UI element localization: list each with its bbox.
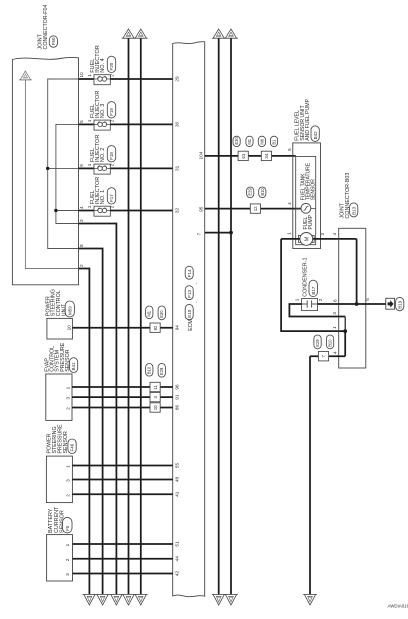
wire F50 pin 8 down	[79, 249, 103, 595]
svg-text:,: ,	[193, 283, 198, 284]
svg-text:63: 63	[241, 153, 246, 158]
wire injector NO.3 to ECM pin 30	[110, 123, 172, 125]
wire condenser pin1 to B13 pin 3	[289, 304, 345, 317]
oval B13	[350, 203, 358, 217]
page arrow bottom G6	[212, 594, 226, 596]
svg-text:10: 10	[153, 405, 158, 410]
svg-text:3: 3	[65, 573, 70, 576]
svg-text:3: 3	[66, 479, 71, 482]
oval F18	[107, 146, 115, 162]
svg-text:3: 3	[320, 233, 325, 236]
oval F19	[107, 102, 115, 118]
svg-text:2: 2	[79, 264, 84, 267]
svg-text:F14: F14	[187, 269, 192, 277]
F46 pin 2 wire to ECM 41	[72, 493, 172, 495]
oval F20	[107, 56, 115, 72]
svg-text:82: 82	[153, 325, 158, 330]
svg-text:E30: E30	[234, 137, 239, 145]
svg-text:1: 1	[87, 119, 92, 122]
svg-text:2: 2	[318, 298, 323, 301]
svg-text:B19: B19	[397, 300, 402, 309]
page arrow bottom G4	[122, 594, 136, 596]
wire M59 to ECM pin 94	[72, 327, 172, 329]
svg-text:AND FUEL PUMP: AND FUEL PUMP	[305, 98, 311, 140]
connector box 63 (E30/M1)	[238, 151, 248, 160]
svg-text:F50: F50	[51, 37, 56, 45]
wire B13 pin1 junction down	[344, 331, 346, 356]
wire ECM 104 to B42 pin 5	[205, 155, 296, 157]
page arrow (inside F50)	[19, 79, 32, 81]
B42 outer box	[293, 143, 321, 249]
joint connector F50 box	[12, 57, 78, 284]
to-page arrow connector	[386, 298, 395, 309]
B13 box	[339, 228, 366, 368]
oval F14	[185, 266, 193, 279]
svg-text:2: 2	[110, 205, 115, 208]
B42 inner box	[296, 157, 316, 245]
B13 internal wire pin3 to pin1	[344, 317, 346, 357]
fuel tank temperature sensor symbol	[301, 203, 311, 213]
F5 pin 2 wire to ECM 44	[73, 558, 173, 560]
svg-text:104: 104	[198, 151, 203, 159]
svg-text:,: ,	[193, 302, 198, 303]
oval B17	[309, 280, 317, 296]
svg-text:B10: B10	[147, 366, 152, 374]
wire ECM 7 to vertical	[205, 232, 231, 234]
svg-text:B42: B42	[313, 131, 318, 140]
svg-text:1: 1	[87, 74, 92, 77]
wire F50 to fuel injector NO.3	[79, 123, 95, 125]
svg-text:2: 2	[65, 558, 70, 561]
svg-text:5: 5	[287, 148, 292, 151]
svg-text:86: 86	[174, 404, 179, 410]
svg-text:M1: M1	[247, 138, 252, 144]
svg-text:8: 8	[79, 244, 84, 247]
svg-text:10: 10	[67, 325, 72, 331]
condenser C box B17	[302, 299, 318, 311]
divider fuel tank temperature sensor	[296, 208, 316, 210]
page arrow bottom G8	[303, 594, 317, 596]
B41 pin 1 wire to ECM 96	[72, 386, 173, 388]
wire F50 pin 3 down	[79, 224, 117, 595]
junction ECM7	[229, 231, 233, 235]
svg-text:B13: B13	[351, 206, 356, 215]
F50 internal bus A	[48, 79, 79, 249]
oval F17	[107, 188, 115, 204]
svg-text:M59: M59	[67, 306, 72, 315]
svg-text:4: 4	[79, 206, 84, 209]
fuel injector NO.1 symbol	[94, 206, 110, 216]
B41 pin 2 wire to ECM 86	[72, 407, 173, 409]
svg-text:E29: E29	[248, 188, 253, 196]
svg-text:E29: E29	[159, 367, 164, 375]
svg-text:E30: E30	[159, 310, 164, 318]
svg-text:B10: B10	[328, 339, 333, 347]
ECM box	[173, 42, 205, 597]
svg-text:E10: E10	[187, 309, 192, 318]
page arrow F top-right	[224, 37, 238, 39]
oval E29 (2)	[314, 335, 321, 349]
oval M1	[246, 136, 253, 146]
wire ECM 95 to B42 pin 4	[205, 208, 302, 210]
wire F50 to fuel injector NO.2	[79, 167, 95, 169]
oval B42	[311, 126, 319, 142]
svg-text:5: 5	[365, 298, 370, 301]
oval F46	[68, 439, 76, 454]
wire from arrow to F50 pin 2	[25, 80, 78, 269]
junction bus A	[46, 167, 49, 170]
svg-text:3: 3	[79, 219, 84, 222]
wire injector NO.4 to ECM pin 29	[110, 78, 172, 80]
svg-text:32: 32	[174, 207, 179, 213]
page arrow bottom G2	[96, 594, 110, 596]
svg-text:1: 1	[65, 543, 70, 546]
svg-text:M1: M1	[147, 310, 152, 316]
svg-text:F20: F20	[109, 62, 114, 70]
F46 pin 3 wire to ECM 48	[72, 479, 172, 481]
fuel injector NO.3 symbol	[94, 120, 110, 130]
svg-text:5: 5	[79, 120, 84, 123]
svg-text:NO. 1: NO. 1	[100, 190, 106, 204]
oval B19	[396, 297, 404, 310]
svg-text:95: 95	[198, 206, 203, 212]
power steering control unit box M59	[47, 318, 73, 339]
svg-text:7: 7	[197, 232, 202, 235]
oval E29	[247, 187, 254, 198]
connector box 10	[150, 403, 160, 412]
connector box 82 (M1/E30)	[150, 323, 160, 332]
svg-text:CONNECTOR-F04: CONNECTOR-F04	[43, 5, 49, 50]
svg-text:96: 96	[174, 384, 179, 390]
page arrow bottom G7	[224, 594, 238, 596]
wire F50 pin 2 down	[79, 269, 90, 595]
svg-text:29: 29	[174, 76, 179, 82]
fuel injector NO.2 symbol	[94, 164, 110, 174]
connector box 34 (M6/B1)	[261, 151, 271, 160]
svg-text:NO. 3: NO. 3	[100, 104, 106, 118]
page arrow bottom G3	[110, 594, 124, 596]
page arrow E top-right	[212, 37, 226, 39]
B41 pin 3 wire to ECM 91	[72, 396, 173, 398]
svg-text:F5: F5	[65, 525, 70, 531]
svg-text:9: 9	[79, 164, 84, 167]
svg-text:F17: F17	[109, 194, 114, 202]
wire fuel pump left	[281, 238, 300, 240]
svg-text:48: 48	[174, 476, 179, 482]
svg-text:1: 1	[295, 298, 300, 301]
wire fuel pump right to B13 pin 4	[313, 238, 357, 240]
oval E30	[233, 136, 240, 146]
svg-text:AWDIA0162GB: AWDIA0162GB	[388, 604, 408, 609]
page arrow bottom G1	[83, 594, 97, 596]
svg-text:2: 2	[110, 74, 115, 77]
wire arrow D down	[140, 38, 142, 594]
svg-text:E29: E29	[315, 339, 320, 347]
svg-text:10: 10	[79, 72, 84, 78]
EVAP control system pressure sensor box B41	[46, 374, 72, 420]
oval M6	[258, 136, 265, 146]
svg-text:2: 2	[110, 119, 115, 122]
wire injector NO.1 to ECM pin 32	[110, 210, 172, 212]
oval B10 (3)	[146, 364, 153, 377]
connector box 7 (E29/B10)	[318, 352, 328, 361]
svg-text:F13: F13	[187, 289, 192, 297]
svg-text:51: 51	[174, 541, 179, 547]
svg-text:34: 34	[264, 153, 269, 158]
svg-text:4: 4	[287, 202, 292, 205]
svg-text:11: 11	[153, 385, 158, 390]
F50 internal bus B	[56, 124, 79, 223]
svg-text:B10: B10	[260, 188, 265, 196]
svg-text:3: 3	[332, 312, 337, 315]
svg-text:M: M	[305, 236, 311, 241]
connector box 11	[150, 382, 160, 391]
svg-text:F46: F46	[70, 443, 75, 451]
svg-text:6: 6	[332, 299, 337, 302]
svg-text:PUMP: PUMP	[308, 214, 314, 229]
B13 internal wire pin4 to junction	[356, 239, 358, 304]
page arrow C top-left	[122, 37, 136, 39]
wire down to ground B	[309, 356, 311, 594]
wire F50 to fuel injector NO.1	[79, 210, 95, 212]
connector box 12 (E29/B10)	[250, 204, 260, 213]
junction B13 pin1	[343, 329, 347, 333]
oval B1	[270, 136, 277, 146]
page arrow D top-left	[134, 37, 148, 39]
F5 pin 1 wire to ECM 51	[73, 543, 173, 545]
svg-text:31: 31	[174, 165, 179, 171]
svg-text:B41: B41	[71, 362, 76, 371]
svg-text:1: 1	[286, 232, 291, 235]
svg-text:1: 1	[65, 386, 70, 389]
svg-text:NO. 2: NO. 2	[100, 148, 106, 162]
page arrow bottom G5	[134, 594, 148, 596]
svg-text:B17: B17	[311, 286, 316, 295]
svg-text:1: 1	[87, 163, 92, 166]
svg-text:55: 55	[174, 462, 179, 468]
svg-text:CONDENSER-1: CONDENSER-1	[302, 258, 308, 297]
wire to connector box 7	[310, 355, 345, 357]
svg-text:12: 12	[253, 206, 258, 211]
wire injector NO.2 to ECM pin 31	[110, 167, 172, 169]
fuel pump motor symbol	[298, 235, 300, 242]
oval E10	[185, 304, 193, 319]
junction B13 pin5	[355, 302, 359, 306]
oval B41	[70, 358, 78, 373]
svg-text:1: 1	[87, 205, 92, 208]
svg-text:42: 42	[174, 570, 179, 576]
svg-text:2: 2	[65, 407, 70, 410]
connector box 3	[150, 392, 160, 401]
oval F5	[63, 517, 73, 533]
wire F50 to fuel injector NO.4	[79, 78, 95, 80]
svg-text:B1: B1	[271, 139, 276, 145]
power steering pressure sensor box F46	[46, 456, 72, 503]
svg-text:NO. 4: NO. 4	[100, 58, 106, 72]
svg-text:ECM: ECM	[188, 319, 194, 331]
svg-text:4: 4	[332, 351, 337, 354]
battery current sensor box F5	[47, 535, 73, 581]
junction bus B	[54, 209, 57, 212]
oval F13	[185, 286, 193, 300]
svg-text:1: 1	[332, 326, 337, 329]
F5 pin 3 wire to ECM 42	[73, 573, 173, 575]
svg-text:F18: F18	[109, 152, 114, 160]
svg-text:41: 41	[174, 491, 179, 497]
wire arrow C down	[128, 38, 130, 594]
svg-text:2: 2	[66, 494, 71, 497]
capacitor symbol	[302, 303, 308, 305]
svg-text:M6: M6	[259, 138, 264, 144]
svg-text:1: 1	[66, 465, 71, 468]
wire arrow E down	[218, 38, 220, 594]
oval E29 (3)	[158, 364, 165, 378]
wire arrow F down	[230, 38, 232, 594]
svg-text:94: 94	[174, 325, 179, 331]
svg-text:30: 30	[174, 121, 179, 127]
oval E30 (2)	[158, 306, 165, 320]
wire condenser pin2 to B19	[318, 303, 386, 305]
oval B10 (2)	[326, 335, 333, 349]
oval M1 (2)	[146, 306, 153, 319]
svg-text:SENSOR: SENSOR	[310, 179, 316, 201]
svg-text:2: 2	[110, 163, 115, 166]
svg-text:4: 4	[332, 233, 337, 236]
svg-text:F19: F19	[109, 108, 114, 116]
F46 pin 1 wire to ECM 55	[72, 465, 172, 467]
fuel injector NO.4 symbol	[94, 75, 110, 85]
oval F50	[49, 36, 57, 48]
svg-text:44: 44	[174, 556, 179, 562]
svg-text:91: 91	[174, 394, 179, 400]
oval B10	[259, 187, 266, 198]
oval M59	[65, 301, 74, 317]
wire fuel pump down to B13	[281, 239, 345, 331]
svg-text:3: 3	[65, 397, 70, 400]
